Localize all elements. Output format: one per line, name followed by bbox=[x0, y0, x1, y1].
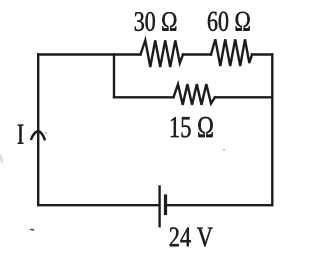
resistor R3 15ohm bbox=[174, 84, 216, 105]
faint speck left bbox=[45, 132, 47, 134]
stray mark bottom left bbox=[30, 229, 35, 231]
faint speck right bbox=[223, 149, 225, 151]
wire branch right segment bbox=[215, 96, 272, 98]
faint edge smudge bbox=[0, 154, 3, 165]
wire bottom left segment bbox=[38, 204, 158, 206]
resistor R2 60ohm bbox=[211, 39, 252, 66]
wire branch vertical drop bbox=[113, 55, 115, 98]
wire top left segment bbox=[38, 53, 140, 55]
label I bbox=[18, 125, 24, 144]
label 30 Ω bbox=[135, 12, 177, 31]
wire between R1 and R2 bbox=[183, 53, 211, 55]
wire bottom right segment bbox=[167, 204, 272, 206]
battery B1 short plate bbox=[164, 196, 167, 214]
wire right vertical bbox=[271, 55, 273, 206]
resistor R1 30ohm bbox=[141, 40, 184, 67]
battery B1 long plate bbox=[158, 187, 160, 227]
wire branch left segment bbox=[114, 96, 174, 98]
label 15 Ω bbox=[171, 117, 213, 137]
label 24 V bbox=[170, 227, 213, 246]
wire left vertical bbox=[37, 55, 39, 206]
current arrow head bbox=[31, 131, 44, 139]
wire top right segment bbox=[252, 53, 272, 55]
label 60 Ω bbox=[208, 12, 250, 31]
